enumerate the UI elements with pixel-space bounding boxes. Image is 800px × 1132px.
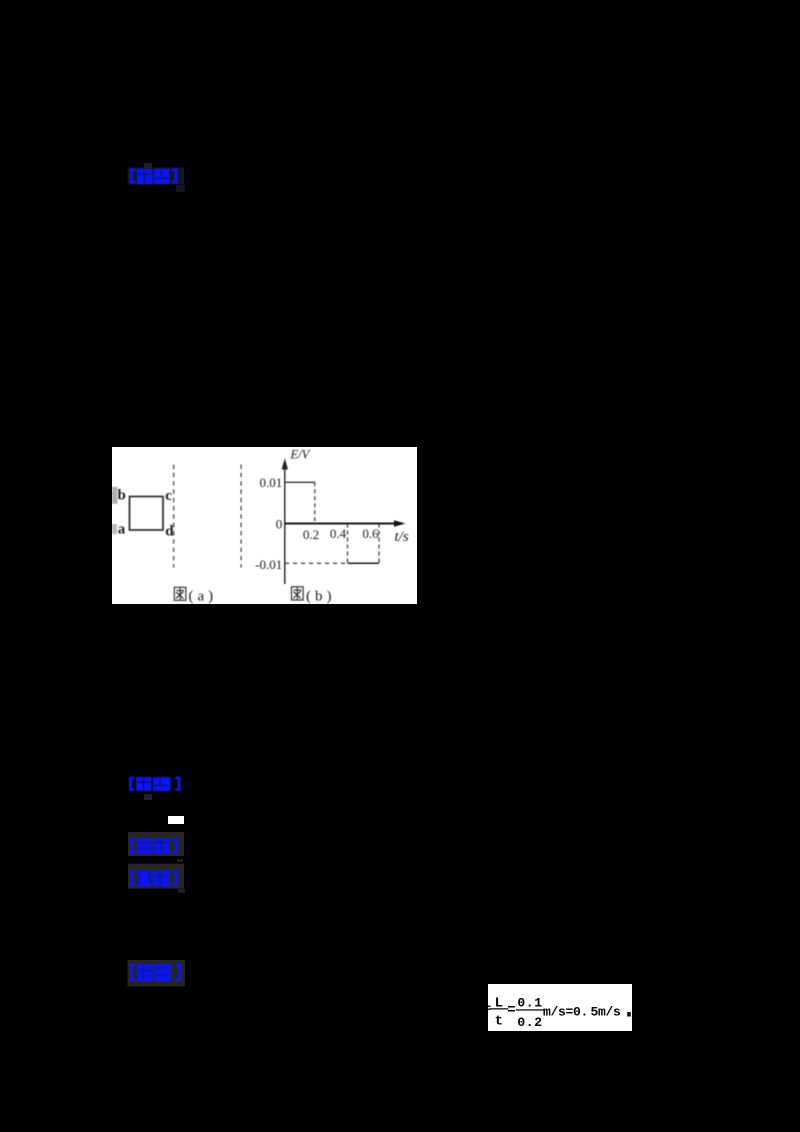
artifact dot below M1 bbox=[176, 185, 185, 192]
svg-text:a: a bbox=[117, 522, 125, 538]
svg-text:0.6: 0.6 bbox=[362, 526, 379, 541]
field boundary dashed line left bbox=[172, 465, 174, 568]
marker block M1 (blue 【answer】 tag, top) bbox=[120, 158, 196, 200]
svg-text:5m/s: 5m/s bbox=[591, 1005, 622, 1020]
artifact dot above M1 bbox=[144, 163, 152, 168]
marker block M3 (blue 【专题】 tag on gray) bbox=[120, 826, 196, 866]
svg-text:E/V: E/V bbox=[289, 448, 310, 462]
fraction bar 0.1/0.2 bbox=[516, 1009, 545, 1010]
artifact dot below M4 bbox=[178, 889, 185, 894]
svg-text:=: = bbox=[507, 1003, 515, 1019]
small white answer box bbox=[168, 816, 184, 824]
svg-text:0: 0 bbox=[275, 517, 282, 532]
field boundary dashed line right bbox=[240, 465, 242, 568]
svg-text:0.2: 0.2 bbox=[517, 1015, 542, 1030]
formula image (white box): v = L/t = 0.1/0.2 m/s = 0.5m/s bbox=[488, 984, 632, 1031]
figure panel (white box with 图(a) and 图(b)) bbox=[112, 447, 417, 604]
cropped '=' tick at left edge bbox=[488, 1006, 491, 1007]
svg-text:(b): (b) bbox=[306, 589, 336, 605]
svg-text:-0.01: -0.01 bbox=[255, 557, 282, 572]
svg-text:0.4: 0.4 bbox=[329, 526, 346, 541]
dashed level -0.01 bbox=[284, 562, 347, 564]
svg-text:d: d bbox=[165, 524, 174, 540]
x-axis (t/s) bbox=[284, 523, 400, 525]
svg-text:0.2: 0.2 bbox=[302, 527, 318, 542]
svg-text:c: c bbox=[165, 488, 172, 504]
svg-text:m/s=0.: m/s=0. bbox=[543, 1005, 588, 1020]
dashed riser at t=0.6 bbox=[378, 524, 380, 564]
artifact dot below M3 bbox=[177, 859, 183, 862]
conducting square loop abcd bbox=[129, 497, 163, 531]
dashed drop at t=0.2 bbox=[313, 482, 315, 523]
marker block M5 (blue 【解答】 tag on gray) bbox=[120, 953, 196, 995]
caption 图(b): hatched glyph box bbox=[291, 587, 303, 600]
svg-text:b: b bbox=[117, 488, 125, 504]
marker block M4 (blue 【分析】 tag on gray) bbox=[120, 857, 196, 899]
trailing period bbox=[627, 1012, 631, 1017]
svg-text:0.1: 0.1 bbox=[517, 995, 542, 1010]
svg-text:0.01: 0.01 bbox=[259, 475, 282, 490]
y-axis (E/V) bbox=[283, 461, 285, 585]
gray cursor mark left of b bbox=[112, 487, 117, 504]
svg-text:t: t bbox=[495, 1014, 503, 1030]
gray cursor mark left of a bbox=[112, 524, 117, 534]
emf curve: -0.01 segment 0.4..0.6s bbox=[347, 562, 379, 564]
artifact dot below M2 bbox=[144, 794, 153, 800]
svg-text:(a): (a) bbox=[188, 589, 217, 605]
fraction bar L/t bbox=[490, 1008, 509, 1009]
dashed riser at t=0.4 bbox=[346, 524, 348, 564]
marker block M2 (blue 【考点】 tag) bbox=[120, 768, 196, 808]
caption 图(a): hatched glyph box bbox=[174, 587, 186, 600]
svg-text:t/s: t/s bbox=[394, 529, 408, 545]
emf curve: +0.01 segment 0..0.2s bbox=[284, 481, 314, 483]
